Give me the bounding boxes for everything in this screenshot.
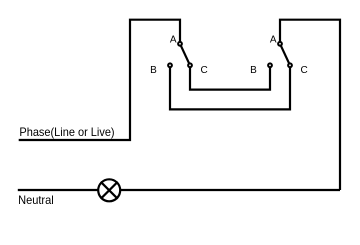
svg-text:A: A: [270, 35, 277, 46]
switch SW2 terminal A: [278, 42, 282, 46]
switch SW1 terminal B: [168, 63, 172, 67]
svg-text:Phase(Line or Live): Phase(Line or Live): [19, 125, 114, 139]
svg-text:A: A: [170, 35, 177, 46]
svg-text:C: C: [301, 65, 308, 76]
wire: traveler between SW1 B and SW2 C: [170, 65, 290, 109]
wire: neutral line across bottom: [18, 189, 340, 191]
svg-text:B: B: [150, 65, 157, 76]
svg-text:B: B: [250, 65, 257, 76]
switch SW2 terminal C: [288, 63, 292, 67]
svg-text:C: C: [201, 65, 208, 76]
switch SW1 terminal A: [178, 42, 182, 46]
switch SW2 terminal B: [268, 63, 272, 67]
lamp L1 cross stroke 2: [101, 182, 118, 199]
svg-text:Neutral: Neutral: [18, 193, 54, 207]
wire: from switch SW2 terminal A up and down right side to lamp/neutral: [280, 20, 340, 190]
lamp L1 body: [98, 179, 120, 201]
switch SW1 terminal C: [188, 63, 192, 67]
wire: traveler between SW1 C and SW2 B: [190, 65, 270, 89]
wire: phase feed from left edge up to switch SW1 terminal A: [19, 20, 180, 140]
switch SW1 lever (A to C): [180, 44, 190, 66]
switch SW2 lever (A to C): [280, 44, 290, 66]
lamp L1 cross stroke 1: [101, 182, 118, 199]
